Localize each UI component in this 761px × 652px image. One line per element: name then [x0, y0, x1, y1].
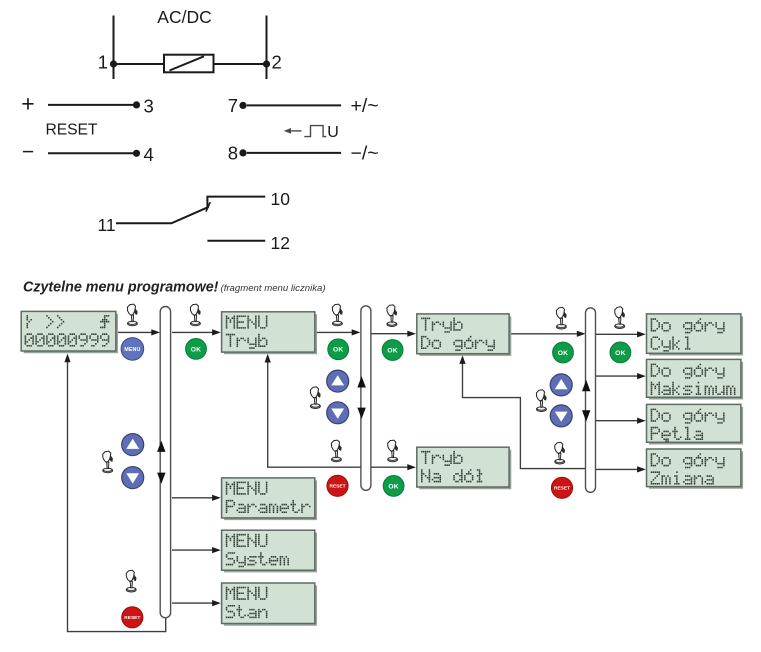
svg-text:+/~: +/~ — [351, 95, 379, 117]
svg-text:AC/DC: AC/DC — [157, 7, 211, 27]
svg-text:10: 10 — [271, 189, 291, 209]
svg-text:OK: OK — [191, 346, 201, 353]
svg-text:RESET: RESET — [330, 483, 346, 489]
svg-text:3: 3 — [144, 96, 154, 117]
svg-text:Czytelne menu programowe!: Czytelne menu programowe! — [23, 279, 219, 295]
svg-text:−: − — [22, 141, 34, 164]
svg-text:RESET: RESET — [124, 615, 140, 621]
svg-text:RESET: RESET — [554, 485, 570, 491]
svg-text:OK: OK — [388, 483, 398, 490]
svg-text:7: 7 — [228, 95, 238, 116]
svg-text:12: 12 — [271, 233, 290, 253]
svg-text:1: 1 — [98, 52, 108, 73]
svg-text:OK: OK — [615, 350, 625, 357]
svg-text:OK: OK — [387, 347, 397, 354]
svg-text:4: 4 — [144, 144, 154, 165]
svg-text:8: 8 — [228, 143, 238, 164]
svg-text:OK: OK — [333, 347, 343, 354]
svg-text:(fragment menu licznika): (fragment menu licznika) — [221, 283, 326, 294]
svg-text:RESET: RESET — [46, 121, 98, 138]
svg-text:2: 2 — [272, 52, 282, 73]
svg-text:U: U — [327, 124, 339, 141]
svg-text:OK: OK — [558, 350, 568, 357]
svg-text:MENU: MENU — [124, 347, 140, 353]
svg-text:+: + — [21, 91, 34, 117]
svg-text:−/~: −/~ — [351, 142, 379, 164]
svg-text:11: 11 — [98, 215, 116, 235]
